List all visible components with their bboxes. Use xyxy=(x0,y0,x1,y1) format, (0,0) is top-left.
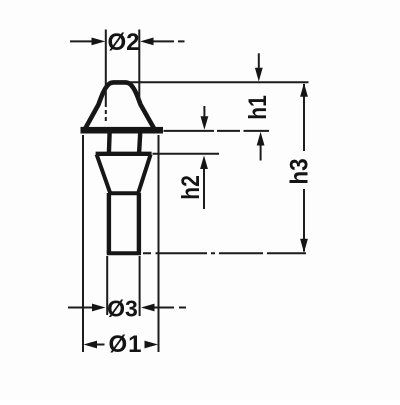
dim Ø3 left extension line xyxy=(106,256,108,315)
stem left wall xyxy=(107,193,111,254)
flange reference line (h1/h2 datum) xyxy=(164,130,270,132)
arrowhead h3 bottom (points down) xyxy=(300,239,308,253)
stem bottom bar xyxy=(107,251,141,255)
barb-top reference line (h2 datum) xyxy=(153,153,220,155)
arrowhead h3 top (points up) xyxy=(300,83,308,97)
dim h3 line lower segment xyxy=(303,189,305,252)
dim Ø3 right extension line xyxy=(139,256,141,316)
svg-text:h3: h3 xyxy=(286,158,314,184)
arrowhead h2 bottom (points up) xyxy=(200,155,208,169)
svg-text:Ø3: Ø3 xyxy=(107,296,138,322)
dim Ø1 right extension line xyxy=(158,135,160,352)
dim Ø1 left extension line xyxy=(82,135,84,352)
arrowhead Ø2 right (points left) xyxy=(140,38,154,46)
dim Ø3 left arrow line xyxy=(68,307,92,309)
top reference line (dome top, h1/h3 datum) xyxy=(129,81,309,83)
flange bar xyxy=(81,127,164,134)
neck left wall xyxy=(107,133,112,153)
dim Ø1 left arrow tail xyxy=(95,344,105,346)
arrowhead h2 top (points down) xyxy=(201,116,209,130)
barb right slope xyxy=(138,155,150,193)
svg-text:h2: h2 xyxy=(176,175,204,200)
bottom reference line (stem bottom, h3 datum) xyxy=(143,252,306,254)
dim h1 upper arrow tail xyxy=(258,53,260,69)
barb bottom bar xyxy=(109,191,140,195)
dim h3 line upper segment xyxy=(303,84,305,151)
arrowhead Ø2 left (points right) xyxy=(92,38,106,46)
stem right wall xyxy=(137,193,141,254)
arrowhead Ø3 left (points right) xyxy=(92,304,106,312)
barb top bar xyxy=(96,152,152,156)
svg-text:Ø1: Ø1 xyxy=(108,331,142,358)
arrowhead h1 top (points down) xyxy=(255,68,263,82)
dim Ø2 right extension line xyxy=(138,30,140,102)
dim h2 upper arrow tail xyxy=(203,106,205,117)
neck right wall xyxy=(139,133,140,153)
dim h1 lower arrow tail xyxy=(260,144,262,161)
dim Ø2 right arrow line xyxy=(152,40,185,42)
dim Ø3 right arrow line xyxy=(153,307,186,309)
dim Ø1 right arrow tail xyxy=(146,344,148,346)
arrowhead Ø1 left (points left) xyxy=(84,341,98,349)
dim Ø2 left extension line xyxy=(105,30,107,122)
dim h2 lower arrow tail xyxy=(203,167,205,209)
arrowhead h1 bottom (points up) xyxy=(257,132,265,146)
arrowhead Ø1 right (points right) xyxy=(145,341,159,349)
svg-text:h1: h1 xyxy=(243,95,271,120)
svg-text:Ø2: Ø2 xyxy=(107,29,139,56)
barb left slope xyxy=(97,155,110,193)
arrowhead Ø3 right (points left) xyxy=(141,304,155,312)
dome outline xyxy=(86,82,154,128)
dim Ø2 left arrow line xyxy=(70,40,93,42)
